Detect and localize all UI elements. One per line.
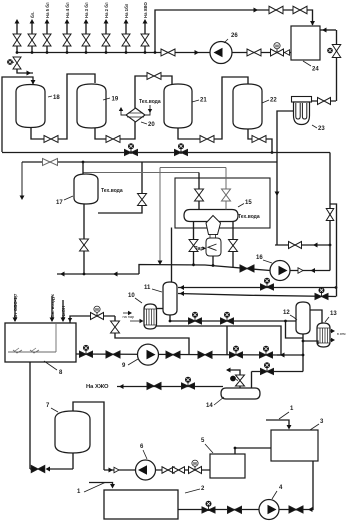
wire air inlet: [50, 293, 55, 322]
label 17: [56, 196, 73, 206]
valve drum 14 riser: [230, 374, 244, 388]
label 19: [103, 97, 119, 103]
filter 23: [292, 97, 312, 125]
svg-text:Сж. воздух: Сж. воздух: [50, 293, 55, 318]
wire hzho line: [117, 384, 223, 389]
control valve line C 1: [230, 346, 243, 358]
wire right vertical drop: [330, 204, 337, 297]
label 26: [224, 33, 238, 43]
svg-text:21: 21: [200, 98, 207, 104]
motor valve tank 8 top: [91, 306, 104, 319]
wire pump 6 suction: [104, 467, 136, 473]
valve drum outlet left: [189, 221, 198, 265]
wire tank 8 drain: [29, 362, 31, 469]
control valve bottom line 1: [189, 312, 202, 324]
wire return line D: [252, 371, 304, 373]
wire feed to vessel 18: [2, 77, 35, 152]
valve 19 drain: [106, 136, 120, 143]
svg-text:На 1бл: На 1бл: [124, 3, 129, 18]
valve 18 drain: [44, 136, 58, 143]
wire inlet 1 to tank 2: [89, 483, 115, 489]
wire feed line B: [178, 291, 336, 296]
wire drain arrow left: [20, 162, 25, 200]
label 23: [312, 125, 325, 132]
label 1 bottom: [77, 483, 105, 496]
wire pump 6 discharge: [156, 469, 211, 471]
wire 17 inlet: [82, 162, 84, 174]
tank 2: [104, 490, 178, 519]
wire third line: [160, 167, 226, 169]
valve hzho: [147, 383, 161, 390]
label 15: [238, 200, 252, 207]
label steam to hx10: [123, 311, 144, 323]
svg-text:На ХВО: На ХВО: [143, 1, 148, 18]
svg-text:12: 12: [283, 310, 290, 316]
wire valve drop to tank 17: [98, 162, 147, 213]
valve pump 6 discharge 2: [173, 467, 185, 474]
svg-text:M: M: [95, 307, 99, 312]
heat exchanger 10: [144, 304, 157, 329]
tank 24: [291, 26, 320, 60]
label 10: [128, 293, 142, 303]
riser На 1бл: [122, 3, 130, 54]
wire drum 14 second riser: [251, 372, 253, 389]
valve vessel 7 drain: [31, 466, 45, 473]
vessel 7: [55, 411, 90, 453]
svg-text:в атм: в атм: [337, 332, 346, 336]
vessel 21: [164, 84, 192, 128]
valve 22 drain: [252, 136, 266, 143]
vessel 19: [77, 84, 106, 128]
control valve line C 2: [260, 346, 273, 358]
heat exchanger 13: [317, 323, 330, 347]
control valve line A: [261, 278, 274, 290]
heat exchanger 20: [126, 108, 145, 122]
vessel 18: [16, 85, 45, 128]
wire 21 drain to 22: [178, 77, 248, 139]
svg-text:15: 15: [245, 200, 252, 206]
wire main line drop right: [329, 153, 332, 247]
valve drum inlet right: [222, 168, 231, 210]
valve pump 16 suction: [240, 265, 254, 272]
riser На ХВО: [141, 1, 149, 53]
wire main collection line: [2, 151, 330, 154]
pump 9: [138, 344, 159, 365]
label 2: [185, 486, 205, 493]
svg-text:на пар: на пар: [123, 315, 135, 319]
pump 16: [270, 261, 290, 281]
wire inlet 1 to tank 3: [266, 420, 291, 430]
svg-text:18: 18: [53, 95, 60, 101]
valve pump 26 suction: [161, 49, 175, 56]
pump 4: [259, 500, 279, 520]
valve filter inlet: [318, 98, 331, 105]
svg-text:17: 17: [56, 200, 63, 206]
wire drum drain: [212, 256, 214, 266]
wire v12 to hx13: [310, 310, 322, 323]
vessel 12: [296, 302, 310, 334]
svg-text:От ОБО-1,7: От ОБО-1,7: [13, 293, 18, 318]
control valve tank 8 outlet: [80, 345, 93, 357]
wire second line: [22, 161, 277, 164]
svg-text:На 4 бл: На 4 бл: [65, 2, 70, 18]
control valve main line 2: [175, 143, 188, 155]
label 18: [48, 95, 60, 101]
motor valve before 24: [271, 43, 290, 56]
svg-text:20: 20: [148, 122, 155, 128]
separator under drum: [206, 216, 221, 257]
wire arrow into pump line: [277, 353, 303, 358]
riser На 3 бл: [82, 2, 90, 54]
pump 26: [210, 42, 232, 64]
valve drum inlet left: [195, 173, 204, 210]
riser На 5 бл: [43, 2, 51, 54]
valve right drop: [326, 209, 334, 221]
label na hzho: [86, 384, 109, 390]
wire hx13 vents: [330, 329, 346, 342]
tank 8 internals: [8, 323, 56, 353]
wire naoh inlet: [61, 300, 66, 322]
wire loop connector: [226, 326, 228, 355]
label steam: [194, 246, 206, 252]
label 6: [140, 444, 147, 459]
riser На 4 бл: [63, 2, 71, 54]
valve pump 9 discharge 1: [166, 351, 180, 358]
svg-text:22: 22: [270, 98, 277, 104]
svg-text:11: 11: [144, 285, 151, 291]
wire hx13 bottom: [303, 341, 318, 344]
drum 15: [184, 210, 238, 222]
wire manifold drain: [17, 69, 33, 75]
wire v12 drop: [302, 334, 305, 372]
label 8: [44, 361, 63, 376]
enclosure box: [175, 178, 270, 228]
tank 3: [271, 430, 318, 461]
valve top line 1: [269, 6, 283, 14]
valve air line drop: [111, 321, 120, 333]
label 16: [256, 255, 272, 263]
wire vessel 7 top loop: [73, 402, 104, 470]
wire 19 drain to exchanger 20: [95, 122, 135, 139]
wire pump 16 suction: [57, 263, 270, 276]
wire drum 14 vent: [226, 368, 240, 374]
label 1 top: [279, 406, 294, 419]
control valve main line 1: [125, 143, 138, 155]
wire grey tech water line: [83, 172, 199, 174]
vessel 22: [233, 84, 262, 129]
wire 22 drain: [248, 129, 273, 154]
wire feed line A: [178, 285, 337, 290]
pump 6: [136, 460, 156, 480]
wire 18 drain to 19: [31, 74, 95, 139]
svg-text:24: 24: [312, 67, 319, 73]
svg-text:19: 19: [112, 97, 119, 103]
riser line: [13, 19, 21, 54]
wire obo inlet: [13, 293, 18, 322]
valve drum outlet right: [229, 221, 238, 267]
svg-text:26: 26: [231, 33, 238, 39]
label 24: [303, 61, 319, 73]
wire top transfer line: [154, 8, 315, 54]
wire tank 3 outlet: [178, 461, 313, 512]
motor valve before box 5: [189, 460, 202, 473]
control valve tank 2 outlet: [202, 501, 215, 513]
label 21: [192, 98, 207, 104]
control valve hzho: [182, 377, 195, 389]
svg-text:16: 16: [256, 255, 263, 261]
valve pump 4 discharge: [289, 506, 303, 513]
wire column bottom line: [169, 315, 303, 338]
label 12: [283, 310, 297, 320]
svg-text:M: M: [275, 43, 279, 48]
tank 8: [5, 323, 76, 362]
wire exchanger 20 vent: [119, 107, 126, 115]
svg-text:Тех.вода: Тех.вода: [139, 99, 161, 105]
wire flow arrow pump 26: [195, 50, 200, 55]
wire 5 to 3: [234, 447, 271, 454]
wire 17 drain: [80, 204, 89, 274]
valve top line 2: [293, 6, 307, 14]
label 3: [310, 419, 324, 430]
wire 20 to valve to 21: [135, 76, 172, 108]
wire pump 16 discharge: [290, 245, 330, 273]
label tech water 17: [101, 188, 123, 194]
label 20: [141, 122, 155, 128]
svg-text:На ХЖО: На ХЖО: [86, 384, 109, 390]
svg-text:бл.: бл.: [30, 12, 35, 18]
wire recirculation line: [275, 242, 330, 249]
svg-text:Тех.вода: Тех.вода: [101, 188, 123, 194]
label 14: [206, 397, 224, 409]
wire hx10 to column: [157, 308, 164, 310]
wire filter feed: [311, 100, 336, 102]
wire tank 8 top right: [68, 318, 72, 322]
wire filter outlet down: [275, 111, 294, 245]
drum 14: [221, 388, 260, 399]
svg-text:14: 14: [206, 403, 213, 409]
label 5: [201, 438, 213, 453]
valve second line: [43, 159, 58, 166]
tank 5: [210, 454, 245, 478]
wire tank 8 drain valve: [30, 467, 73, 472]
wire hx10 bottom line: [157, 326, 282, 355]
label tech water 15: [238, 214, 260, 220]
svg-text:NaOH: NaOH: [61, 306, 66, 318]
label 22: [262, 98, 277, 104]
control valve line B: [315, 287, 328, 299]
control valve line D: [261, 362, 274, 374]
svg-text:23: 23: [318, 126, 325, 132]
valve 19-21 transfer: [147, 73, 161, 80]
svg-text:Тех.вода: Тех.вода: [238, 214, 260, 220]
svg-text:На 3 бл: На 3 бл: [84, 2, 89, 18]
wire air valve line: [70, 316, 189, 355]
riser бл.: [28, 12, 36, 54]
label 13: [325, 311, 337, 322]
valve pump 26 discharge: [247, 49, 261, 56]
valve pump 6 discharge 1: [162, 467, 174, 474]
label tech water 20: [139, 99, 161, 115]
control valve bottom line 2: [221, 312, 234, 324]
wire column riser: [171, 228, 173, 283]
valve 21 drain: [200, 136, 214, 143]
wire pump 9 line: [76, 354, 281, 355]
svg-text:10: 10: [128, 293, 135, 299]
valve drain with indicator: [7, 57, 21, 69]
valve pump 9 suction: [106, 351, 120, 358]
valve with indicator right of 24: [327, 30, 341, 101]
svg-text:На 5 бл: На 5 бл: [45, 2, 50, 18]
label 11: [144, 285, 162, 292]
label 7: [46, 403, 58, 412]
tank 17: [74, 174, 98, 204]
wire grey drop line: [158, 168, 163, 266]
wire return into 24: [320, 28, 336, 33]
valve pump 9 discharge 2: [198, 351, 212, 358]
svg-text:M: M: [193, 461, 197, 466]
riser На 2 бл: [102, 2, 110, 54]
svg-text:На 2 бл: На 2 бл: [104, 2, 109, 18]
wire manifold header: [17, 52, 291, 54]
label 4: [272, 485, 283, 499]
valve pump 4 suction: [228, 506, 242, 513]
svg-text:13: 13: [330, 311, 337, 317]
column 11: [163, 282, 177, 315]
wire vessel 7 bottom: [72, 453, 74, 469]
label 9: [122, 359, 138, 369]
